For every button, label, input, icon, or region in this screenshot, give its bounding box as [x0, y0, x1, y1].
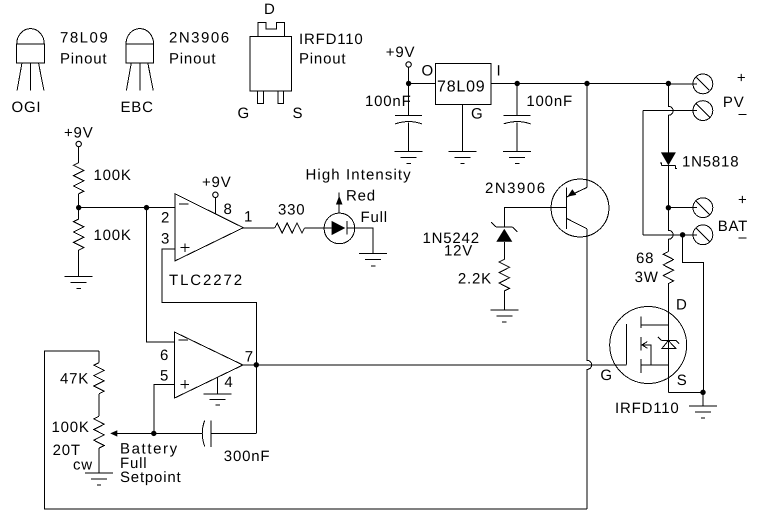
svg-text:Red: Red	[346, 188, 376, 205]
ground (pot)	[85, 473, 113, 485]
svg-text:D: D	[676, 297, 688, 314]
diode 1N5818	[660, 152, 677, 168]
svg-text:4: 4	[224, 374, 233, 391]
ground (mosfet source)	[689, 406, 717, 418]
svg-text:100K: 100K	[94, 227, 132, 244]
regulator 78L09	[436, 63, 491, 104]
minus sign pin6	[179, 339, 189, 341]
svg-text:Setpoint: Setpoint	[120, 469, 181, 486]
svg-text:1: 1	[244, 209, 253, 226]
svg-text:3W: 3W	[635, 269, 659, 286]
potentiometer 100K 20T	[94, 416, 104, 448]
svg-text:G: G	[238, 105, 250, 122]
wire 78L09 I pin to rail	[491, 83, 517, 85]
svg-text:BAT: BAT	[718, 218, 748, 235]
+9V supply terminal	[406, 62, 411, 67]
wire base to zener	[504, 208, 566, 227]
svg-text:2N3906: 2N3906	[169, 30, 231, 47]
IRFD110 package pinout	[250, 22, 292, 103]
resistor 47K	[94, 363, 104, 394]
wire pin5 stub	[154, 384, 174, 433]
svg-text:2.2K: 2.2K	[458, 271, 492, 288]
node junction PV tee	[666, 81, 671, 86]
svg-text:3: 3	[161, 231, 170, 248]
svg-text:+9V: +9V	[386, 44, 416, 61]
wire pin4 to ground	[217, 377, 219, 394]
wire 68 to drain / through mosfet to source exit	[667, 284, 669, 393]
svg-text:68: 68	[636, 250, 654, 267]
wire BAT- to PV- drop	[643, 234, 697, 236]
svg-text:Pinout: Pinout	[60, 51, 107, 68]
78L09 TO-92 package pinout	[17, 29, 45, 91]
svg-text:+9V: +9V	[202, 174, 232, 191]
ground (2.2K)	[490, 310, 518, 322]
wire feedback box (left loop)	[45, 351, 588, 509]
pot wiper arrow	[110, 430, 154, 436]
ground (left 100nF)	[395, 152, 423, 164]
+9V terminal opamp pin8	[213, 192, 218, 197]
resistor 100K (upper divider)	[74, 163, 84, 194]
svg-text:330: 330	[278, 202, 305, 219]
svg-text:100nF: 100nF	[526, 93, 573, 110]
wire divider node to opamp1 pin2	[79, 207, 175, 209]
wire to BAT+ terminal	[668, 207, 697, 209]
wire LED to ground	[347, 228, 373, 253]
svg-text:78L09: 78L09	[60, 30, 109, 47]
wire rail to PV+ terminal	[668, 83, 697, 85]
resistor 68 3W	[663, 252, 673, 284]
wire 2.2K to ground	[503, 291, 505, 310]
wire rail to PV tee	[587, 83, 668, 85]
screw terminal PV+	[693, 74, 713, 94]
svg-text:OGI: OGI	[12, 99, 42, 116]
ground (LED)	[359, 253, 387, 266]
wire 47K to pot	[98, 394, 100, 416]
svg-text:+: +	[738, 192, 748, 209]
svg-text:2N3906: 2N3906	[485, 180, 547, 197]
ground (78L09 G)	[449, 152, 477, 164]
svg-text:6: 6	[160, 347, 169, 364]
wire 78L09 G pin down	[462, 104, 464, 151]
2N3906 TO-92 package pinout	[126, 29, 154, 91]
ground (divider)	[65, 276, 93, 288]
svg-text:TLC2272: TLC2272	[169, 272, 244, 289]
plus sign pin5	[181, 383, 190, 385]
wire source to ground node	[668, 391, 703, 393]
svg-text:100K: 100K	[94, 167, 132, 184]
node wiper junction	[151, 431, 156, 436]
svg-text:cw: cw	[73, 457, 93, 474]
wire pin8	[214, 198, 216, 214]
capacitor 300nF	[154, 420, 256, 446]
resistor 2.2K	[499, 259, 509, 291]
screw terminal BAT-	[693, 225, 713, 245]
capacitor 100nF (left of regulator)	[395, 116, 422, 152]
svg-text:EBC: EBC	[121, 99, 154, 116]
svg-text:5: 5	[160, 368, 169, 385]
svg-text:+: +	[737, 70, 747, 87]
wire PV tee down with hop over PV- wire	[668, 84, 673, 153]
node BAT- tee	[680, 232, 685, 237]
svg-text:7: 7	[245, 349, 254, 366]
resistor 330	[275, 223, 305, 233]
screw terminal BAT+	[693, 198, 713, 218]
svg-text:IRFD110: IRFD110	[299, 31, 364, 48]
ground (opamp2 pin4)	[204, 394, 232, 405]
zener diode 1N5242	[491, 222, 517, 259]
capacitor 100nF (right of regulator)	[504, 84, 531, 152]
node tee to pin6	[144, 205, 149, 210]
node pin7 junction	[254, 362, 259, 367]
plus sign pin3	[181, 247, 190, 249]
transistor 2N3906	[551, 84, 609, 509]
mosfet Q2 IRFD110	[610, 307, 687, 384]
op-amp U1A TLC2272	[175, 194, 244, 261]
svg-text:12V: 12V	[444, 243, 473, 260]
svg-text:G: G	[471, 106, 483, 123]
wire diode to BAT+ tee	[667, 166, 669, 208]
wire PV- drop to BAT-	[642, 111, 644, 235]
LED emission arrow	[336, 193, 343, 214]
ground (right 100nF)	[503, 152, 531, 164]
+9V terminal (left divider)	[76, 141, 81, 146]
svg-text:High Intensity: High Intensity	[306, 166, 412, 183]
wire BAT+ tee down with hop over BAT- wire, to 68 ohm	[668, 208, 673, 252]
node junction at 78L09 output	[406, 81, 411, 86]
wire pot to ground	[98, 448, 100, 473]
svg-text:O: O	[422, 63, 434, 80]
svg-text:78L09: 78L09	[437, 79, 486, 96]
svg-text:+9V: +9V	[64, 125, 94, 142]
wire 47K top lead	[98, 351, 100, 363]
wire to ground	[78, 250, 80, 276]
wire resistor to LED	[305, 227, 332, 229]
LED Full indicator	[324, 213, 355, 244]
svg-text:D: D	[264, 1, 276, 18]
svg-text:100nF: 100nF	[365, 93, 412, 110]
svg-text:300nF: 300nF	[224, 448, 271, 465]
svg-text:IRFD110: IRFD110	[615, 400, 680, 417]
resistor 100K (lower divider)	[74, 219, 84, 250]
svg-text:2: 2	[161, 210, 170, 227]
node source junction	[700, 390, 705, 395]
svg-text:Full: Full	[361, 209, 388, 226]
op-amp U1B TLC2272	[175, 332, 243, 398]
svg-text:S: S	[293, 105, 304, 122]
wire to 78L09 O pin	[409, 83, 436, 85]
svg-text:1N5818: 1N5818	[682, 154, 739, 171]
node junction right 100nF	[515, 81, 520, 86]
svg-text:Pinout: Pinout	[299, 51, 346, 68]
wire opamp1 output to resistor	[243, 227, 274, 229]
wire rail to collector tee	[517, 83, 587, 85]
svg-text:47K: 47K	[60, 371, 89, 388]
wire terminal to R	[78, 147, 80, 163]
svg-text:PV: PV	[723, 94, 745, 111]
svg-text:Pinout: Pinout	[169, 51, 216, 68]
wire to ground	[702, 392, 704, 406]
node junction collector tee	[584, 81, 589, 86]
wire PV- to left drop	[643, 110, 697, 112]
wire +9V down to rail	[408, 67, 410, 115]
wire tee down to opamp2 pin6	[147, 208, 175, 343]
svg-text:G: G	[600, 367, 612, 384]
svg-text:S: S	[677, 372, 688, 389]
minus sign pin2	[179, 203, 188, 205]
svg-text:100K: 100K	[52, 419, 90, 436]
node divider junction	[76, 205, 81, 210]
wire BAT- tee down and over to source node	[683, 235, 704, 392]
svg-text:8: 8	[224, 201, 233, 218]
svg-text:I: I	[497, 63, 502, 80]
node BAT+ tee	[666, 205, 671, 210]
wire opamp2 output to gate	[243, 364, 627, 366]
wire between divider resistors	[78, 194, 80, 219]
screw terminal PV-	[693, 101, 713, 121]
wire pin3 stub to feedback	[162, 249, 256, 433]
